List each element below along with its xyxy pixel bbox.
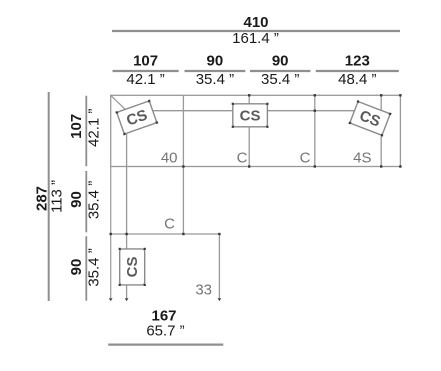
svg-text:CS: CS (124, 256, 141, 277)
svg-text:35.4 ”: 35.4 ” (86, 181, 103, 219)
dimension left 90 (first) inches 35.4 (86, 181, 103, 219)
svg-text:4S: 4S (353, 150, 371, 167)
chaise right edge (218, 234, 220, 299)
dimension 107 line (113, 70, 179, 72)
dimension left 107 number (68, 114, 85, 139)
dimension 90 (first) line (185, 70, 246, 72)
dimension 410 total width: number (243, 14, 268, 31)
svg-text:35.4 ”: 35.4 ” (261, 71, 299, 88)
dimension 107 number (133, 53, 158, 70)
dimension left 90 (second) number (68, 259, 85, 276)
svg-text:42.1 ”: 42.1 ” (126, 71, 164, 88)
dimension 287 total height number (34, 186, 51, 211)
dimension 167 line (108, 344, 223, 346)
dimension 90 (first) number (207, 53, 224, 70)
dimension 287 line (48, 92, 50, 301)
label C section 3 (300, 150, 311, 167)
arrow tip left edge bottom (109, 298, 113, 301)
divider 3 (314, 95, 316, 166)
svg-text:48.4 ”: 48.4 ” (338, 71, 376, 88)
junction dots chaise (110, 233, 221, 235)
svg-text:42.1 ”: 42.1 ” (86, 109, 103, 147)
CS box 3 (right, tilted) (348, 100, 391, 137)
dimension 90 (second) number (272, 53, 289, 70)
label C left column (164, 216, 175, 233)
svg-text:161.4 ”: 161.4 ” (232, 30, 279, 47)
dimension left 107 line (85, 96, 87, 167)
svg-text:CS: CS (240, 107, 261, 124)
dimension 287 inches 113 (48, 180, 65, 213)
svg-text:C: C (237, 150, 248, 167)
corner interior vertical (continues down to chaise bottom) (126, 111, 128, 299)
dimension 410 inches 161.4 (232, 30, 279, 47)
svg-text:65.7 ”: 65.7 ” (146, 323, 184, 340)
left edge of left column (110, 167, 112, 300)
sofa top row outer rectangle (111, 95, 401, 166)
svg-text:33: 33 (195, 282, 212, 299)
dimension 90 (second) inches 35.4 (261, 71, 299, 88)
svg-text:C: C (300, 150, 311, 167)
dimension 123 number (345, 53, 370, 70)
dimension 167 bottom number (151, 308, 176, 325)
label 40 (161, 150, 178, 167)
dimension 107 inches 42.1 (126, 71, 164, 88)
dimension 123 line (316, 70, 399, 72)
svg-text:90: 90 (272, 53, 289, 70)
horizontal boundary at y=234 (111, 233, 220, 235)
dimension left 90 (first) number (68, 191, 85, 208)
dimension left 90 (second) inches 35.4 (86, 248, 103, 286)
divider 2 (248, 95, 250, 166)
CS box 1 (corner, tilted) (115, 99, 158, 135)
backrest line (127, 110, 382, 112)
svg-text:35.4 ”: 35.4 ” (196, 71, 234, 88)
svg-text:107: 107 (133, 53, 158, 70)
dimension 90 (first) inches 35.4 (196, 71, 234, 88)
arrow tip interior line bottom (125, 298, 129, 301)
dimension 123 inches 48.4 (338, 71, 376, 88)
svg-text:90: 90 (68, 259, 85, 276)
dimension 410 line (112, 30, 400, 32)
dimension left 107 inches 42.1 (86, 109, 103, 147)
svg-text:90: 90 (68, 191, 85, 208)
svg-text:123: 123 (345, 53, 370, 70)
dimension 167 inches 65.7 (146, 323, 184, 340)
corner diagonal (111, 95, 127, 110)
dimension 90 (second) line (250, 70, 310, 72)
dimension left 90 (first) line (85, 171, 87, 232)
svg-text:40: 40 (161, 150, 178, 167)
svg-text:35.4 ”: 35.4 ” (86, 248, 103, 286)
label C section 2 (237, 150, 248, 167)
divider 1 (x=183, continues down to chaise) (182, 95, 184, 234)
label 4S (353, 150, 371, 167)
svg-text:113 ”: 113 ” (48, 180, 65, 213)
arrow tip chaise right bottom (218, 298, 222, 301)
label 33 chaise (195, 282, 212, 299)
svg-text:90: 90 (207, 53, 224, 70)
dimension left 90 (second) line (85, 236, 87, 300)
svg-text:107: 107 (68, 114, 85, 139)
armrest line (380, 95, 382, 166)
CS box 4 (chaise, rotated 90) (119, 248, 146, 286)
CS box 2 (middle, straight) (232, 103, 269, 128)
junction dots top row (182, 94, 401, 168)
svg-text:410: 410 (243, 14, 268, 31)
svg-text:C: C (164, 216, 175, 233)
